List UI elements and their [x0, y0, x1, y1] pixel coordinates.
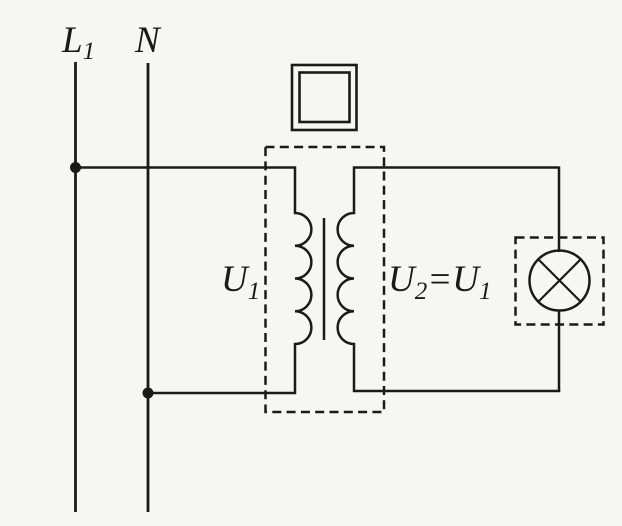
junction on L1	[70, 162, 81, 173]
lamp E1	[530, 251, 590, 311]
wire secondary top	[353, 166, 559, 169]
svg-text:U2=U1: U2=U1	[388, 259, 491, 305]
wire secondary bottom	[353, 390, 560, 393]
wire primary bottom	[148, 392, 296, 395]
transformer core	[323, 218, 326, 340]
wire primary top	[76, 166, 297, 169]
wire N rail	[147, 63, 150, 512]
wire lamp bottom lead	[558, 310, 561, 392]
transformer T1 dashed enclosure	[266, 147, 385, 412]
lamp E1 dashed enclosure	[516, 238, 604, 325]
transformer primary winding	[295, 167, 311, 395]
transformer secondary winding	[338, 167, 354, 393]
junction on N	[143, 388, 154, 399]
wire lamp top lead	[558, 167, 561, 253]
class II insulation symbol (double square)	[292, 65, 357, 130]
svg-text:N: N	[134, 20, 162, 61]
wire L1 rail	[74, 62, 77, 512]
